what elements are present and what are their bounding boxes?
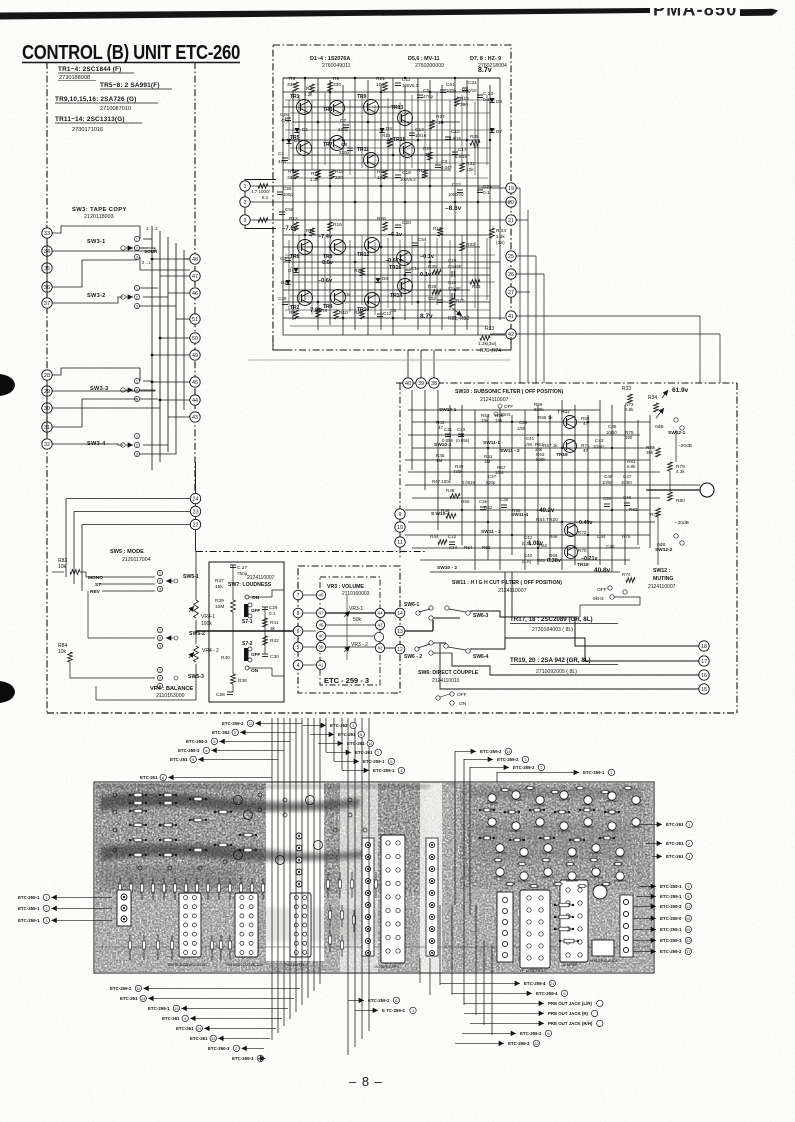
wire node25 bus [516,255,536,257]
svg-text:28: 28 [44,373,50,379]
svg-text:330: 330 [287,175,295,181]
svg-text:10/50: 10/50 [602,480,613,485]
svg-text:100V6.3: 100V6.3 [402,83,419,88]
capacitor C29 0.1 [262,606,268,608]
node r48 [190,254,200,264]
svg-text:6.8k: 6.8k [627,464,636,469]
svg-text:45: 45 [319,593,324,598]
loudness block frame [209,562,284,702]
svg-text:ETC-259-2: ETC-259-2 [368,998,390,1003]
svg-text:1M: 1M [484,459,491,464]
svg-text:220p: 220p [338,127,349,132]
svg-text:C47: C47 [623,474,632,479]
callout bottom r1 [348,999,364,1001]
svg-text:11: 11 [397,540,403,546]
svg-text:10: 10 [425,152,431,157]
node 38 [429,378,439,388]
resistor R27 10 [430,120,435,129]
wire node42 right [516,333,720,335]
svg-text:95: 95 [686,928,690,932]
svg-text:1.3k: 1.3k [310,177,319,182]
svg-text:SW SUBSONIC FILTER: SW SUBSONIC FILTER [168,963,207,967]
resistor R25 100 [383,170,388,179]
wire right vertical x700 [699,316,701,383]
svg-text:2120117004: 2120117004 [122,557,151,563]
svg-text:R42: R42 [270,638,279,644]
svg-text:ETC-259-1: ETC-259-1 [18,918,40,923]
wire vr3 column [346,595,348,660]
callout ETC-259-3 r9 [633,939,656,941]
svg-text:SW7: LOUDNESS: SW7: LOUDNESS [228,582,272,588]
resistor R5 330 [294,82,299,91]
svg-text:10 TAPE COPY: 10 TAPE COPY [374,965,400,969]
svg-text:2710087010: 2710087010 [100,106,131,112]
svg-text:18: 18 [701,644,707,650]
svg-text:TR5~8: 2 SA991(F): TR5~8: 2 SA991(F) [100,82,160,89]
wire SW3 bus verticals [151,226,153,470]
svg-text:ON: ON [252,595,260,601]
resistor R23 12 [388,138,393,147]
svg-text:SW6-1: SW6-1 [404,602,420,608]
svg-text:R33: R33 [622,386,631,392]
resistor R8 [316,308,321,317]
arrow 61.9v [662,390,668,398]
svg-text:R76: R76 [622,534,631,539]
node w45 [316,590,325,599]
node 26 [506,269,516,279]
node 40 [403,378,413,388]
node x43 [375,620,384,629]
scan thumb mark lower [0,681,15,703]
node v7 [293,590,303,600]
svg-text:2710092005 ( 8L): 2710092005 ( 8L) [536,669,577,675]
switch S7-1 ON contact [245,595,249,599]
svg-text:–20dB: –20dB [678,443,692,449]
svg-text:2760200009: 2760200009 [415,63,444,69]
svg-text:C44: C44 [597,534,606,539]
node w39 [316,642,325,651]
capacitor C54 [412,242,418,244]
svg-text:32: 32 [44,442,50,448]
svg-text:5: 5 [234,731,236,735]
svg-text:ETC-259-2: ETC-259-2 [513,765,535,770]
svg-text:R16: R16 [333,222,342,228]
svg-text:R14: R14 [306,228,315,233]
svg-text:ETC-259-1: ETC-259-1 [660,927,682,932]
resistor R16 [328,222,333,231]
callout ETC-259-3 r6 [633,905,656,907]
svg-text:220p: 220p [339,150,350,155]
wire SW3 right links lower [143,380,152,382]
wire sw6-1 out [433,617,460,619]
svg-text:0.1v: 0.1v [420,272,432,278]
svg-text:47p: 47p [281,118,289,124]
svg-text:C38: C38 [500,497,509,502]
wire terminal column 28-32 [46,380,48,439]
svg-text:ETC-261: ETC-261 [666,841,684,846]
node r43 [190,412,200,422]
svg-text:2: 2 [540,766,542,770]
callout ETC-259-0 r7 [633,917,656,919]
pcb right lower connectors [497,892,513,962]
capacitor C3 0.047 [435,164,441,166]
svg-text:820k: 820k [536,457,546,462]
svg-text:MUTING: MUTING [653,576,673,582]
svg-text:R24: R24 [354,268,363,273]
svg-text:ETC-261: ETC-261 [140,775,158,780]
svg-text:0.1: 0.1 [483,190,490,196]
svg-text:12: 12 [397,647,403,653]
node 28 [42,370,52,380]
svg-text:C17: C17 [458,147,467,152]
callout ETC-259-1 r5 [636,895,656,897]
transistor TR9 [364,100,379,115]
svg-text:PRE OUT JACK (R): PRE OUT JACK (R) [548,1011,589,1016]
svg-text:10: 10 [473,144,479,149]
callout bottom r9 [455,1042,504,1044]
amp block extra segments [288,100,290,160]
pcb vr4 block [593,885,607,899]
svg-text:ETC-261: ETC-261 [176,1026,194,1031]
svg-text:100k: 100k [201,621,212,627]
pcb pin strip right-center [426,838,438,956]
wire s7-1 on loop [249,590,284,597]
diode D6 [375,278,380,283]
svg-text:ETC-259-0: ETC-259-0 [660,916,682,921]
svg-text:39: 39 [418,381,424,387]
svg-text:R47 100k: R47 100k [432,479,452,484]
svg-text:44: 44 [192,398,198,404]
svg-text:47: 47 [438,425,444,430]
svg-text:22: 22 [193,522,199,528]
wire SW3 extra links [183,250,185,410]
wire filter drop 2 [511,572,513,617]
wire bundle right lower2 [483,940,485,1025]
node 27 [506,287,516,297]
svg-text:1: 1 [45,896,47,900]
svg-text:1.2k: 1.2k [496,234,505,239]
svg-text:SW6-4: SW6-4 [473,654,489,660]
node 24 [190,493,200,503]
svg-text:430k: 430k [453,469,463,474]
svg-text:ETC-259-2: ETC-259-2 [110,986,132,991]
svg-text:TR1: TR1 [290,94,300,100]
svg-text:1000/10: 1000/10 [461,88,477,93]
transistor TR18 [565,546,578,559]
volume block dash-dot frame [298,566,400,693]
border inner-left dash-dot [194,62,196,497]
svg-text:43: 43 [378,623,383,628]
svg-text:VR4 : BALANCE: VR4 : BALANCE [150,686,193,692]
wire node 1-3 chain [245,180,276,229]
resistor R7 1.3k [310,84,315,93]
svg-text:ETC-259-3: ETC-259-3 [660,904,682,909]
wire bus amp right vertical 2 [527,210,529,383]
svg-text:4.7 1000/: 4.7 1000/ [251,189,271,194]
svg-text:SW5 : MODE: SW5 : MODE [110,549,144,555]
svg-text:2: 2 [235,1047,237,1051]
pcb white wire channel center [340,783,378,972]
svg-text:2124110007: 2124110007 [247,575,275,581]
svg-text:D6: D6 [382,276,388,281]
wire node19 to bus [516,187,520,189]
svg-text:47: 47 [583,448,589,453]
pcb left small parts [113,793,117,797]
node 18 [699,641,709,651]
svg-text:D3: D3 [294,138,300,144]
node y12 [395,644,405,654]
svg-text:21: 21 [550,982,554,986]
svg-text:OFF: OFF [597,587,607,593]
amp block dash-dot frame [273,45,511,350]
svg-text:1: 1 [688,823,690,827]
svg-text:10: 10 [397,525,403,531]
svg-text:R52: R52 [484,505,493,510]
svg-text:2730188908: 2730188908 [59,75,90,81]
svg-text:42: 42 [378,646,383,651]
svg-text:61.9v: 61.9v [672,387,689,394]
svg-text:49: 49 [192,353,198,359]
svg-text:3: 3 [688,855,690,859]
scan thumb mark upper [0,374,15,396]
svg-text:ON: ON [459,701,467,707]
svg-text:SW5-1: SW5-1 [183,574,199,580]
svg-text:(L,R): (L,R) [522,559,532,564]
svg-text:C2: C2 [280,256,286,262]
node 31 [42,422,52,432]
transistor TR20 [565,524,578,537]
capacitor C27 750p [230,564,236,566]
capacitor C1 47p [282,157,288,159]
svg-text:D8: D8 [496,99,502,105]
svg-text:R46: R46 [441,508,450,513]
node 11 [395,537,405,547]
svg-text:ETC-259-3: ETC-259-3 [660,938,682,943]
volume inner dash-dot frame [320,577,380,685]
pcb left transistors [234,796,243,805]
wire sw12 column [675,430,677,462]
svg-text:2→1: 2→1 [142,260,152,265]
wire bus amp right vertical 3 [535,256,537,383]
transistor TR14 [398,279,413,294]
svg-text:(3w): (3w) [496,240,505,245]
node r45 [190,377,200,387]
wire SW5 drop 3 [81,525,83,592]
resistor R24 [360,268,365,276]
border filter-left dash-dot [399,383,401,558]
svg-text:–0.67v: –0.67v [385,258,403,264]
transistor TR16 [397,251,412,266]
svg-text:D2: D2 [281,280,287,285]
svg-text:–20dB: –20dB [675,520,689,526]
border filter-top dash-dot [396,382,737,384]
svg-text:390: 390 [460,102,468,108]
border left dash-dot [46,62,48,713]
masthead right bar [740,9,778,16]
svg-text:2124110007: 2124110007 [648,584,676,590]
svg-text:VR4-2 BALANCE: VR4-2 BALANCE [590,959,619,963]
svg-text:8: 8 [687,895,689,899]
svg-text:D7: D7 [496,129,502,135]
resistor R36 [470,280,480,285]
svg-text:2: 2 [244,200,247,206]
svg-text:50k: 50k [353,617,362,623]
svg-text:C26: C26 [278,296,287,301]
amp block bottom bracket right [495,337,511,350]
transistor TR5 [297,141,312,156]
pcb footprint SW tape copy [381,835,405,963]
node 1 [240,181,250,191]
svg-text:ETC-259-2: ETC-259-2 [480,749,502,754]
callout ETC-259-2 topB1 [455,750,476,752]
svg-text:40: 40 [686,939,690,943]
wire terminal column 22-24 stem [195,462,197,552]
svg-text:2110163000: 2110163000 [156,693,185,699]
callout bottom r6 [464,1012,544,1014]
svg-text:TR15: TR15 [393,137,405,143]
svg-text:R39: R39 [215,598,224,604]
svg-text:ETC-261: ETC-261 [170,757,188,762]
svg-text:10/50: 10/50 [621,480,632,485]
svg-text:6: 6 [297,629,300,635]
svg-text:1M: 1M [436,458,443,463]
svg-text:ETC-262: ETC-262 [212,730,230,735]
svg-text:14: 14 [397,611,403,617]
svg-text:VR4-1: VR4-1 [201,614,215,620]
svg-text:CS45E: CS45E [448,264,462,269]
transistor TR8 [331,240,346,255]
transistor TR17 [564,416,577,429]
capacitor C21 1000/10 [462,87,468,89]
wire node41 right [516,315,700,317]
svg-text:R33: R33 [485,326,494,332]
svg-text:R6: R6 [289,310,295,316]
svg-text:VR4 - 2: VR4 - 2 [202,648,219,654]
svg-text:R56: R56 [482,545,491,550]
callout ETC-261 r2 [646,842,662,844]
junction dots SW3 [151,258,154,261]
svg-text:24: 24 [141,997,145,1001]
svg-text:–7.6v: –7.6v [282,226,298,232]
wire heavy y631 [196,630,296,632]
svg-text:37: 37 [44,301,50,307]
svg-text:ON: ON [251,668,259,674]
svg-text:R21: R21 [376,76,385,82]
svg-text:4: 4 [184,1017,186,1021]
svg-text:2760049011: 2760049011 [322,63,351,69]
svg-text:13: 13 [397,629,403,635]
svg-text:R17: R17 [417,168,426,173]
svg-text:17: 17 [701,659,707,665]
svg-text:41: 41 [319,663,324,668]
callout ETC-259-1 r8 [633,928,656,930]
svg-text:4: 4 [400,769,402,773]
capacitor C55 100p [277,191,283,193]
svg-text:9kHz: 9kHz [593,596,605,602]
svg-text:0.6v: 0.6v [322,260,334,266]
wire SW5 drop 2 [73,511,75,584]
svg-text:R38: R38 [238,678,247,684]
svg-text:R37: R37 [215,578,224,584]
svg-text:–0.6v: –0.6v [318,278,333,284]
resistor R9 330 [328,82,333,91]
svg-text:SW11 - 2: SW11 - 2 [500,448,520,454]
wire VR4 top [195,552,197,601]
wire 13 heavy [405,630,433,632]
svg-text:TR13: TR13 [391,105,403,111]
svg-text:ETC-259-3: ETC-259-3 [222,721,244,726]
diode D1 [294,128,299,133]
node 9 [395,509,405,519]
capacitor C9 220p [347,147,353,149]
svg-text:10/50: 10/50 [593,444,604,449]
pcb right transistor clusters [488,794,496,802]
svg-text:1/50: 1/50 [524,442,533,447]
callout ETC-259-1 long [496,772,498,782]
svg-text:SW3: TAPE COPY: SW3: TAPE COPY [72,207,127,213]
svg-text:ETC-261: ETC-261 [190,1036,208,1041]
svg-text:PRE OUT JACK (R/H): PRE OUT JACK (R/H) [548,1021,593,1026]
pcb grain fill coarse left [96,784,426,894]
wire volume links [303,594,316,596]
svg-text:330: 330 [335,175,343,181]
node w46 [316,620,325,629]
svg-text:R9: R9 [333,76,339,82]
svg-text:E TC-259-4: E TC-259-4 [382,1008,405,1013]
svg-text:–40.2v: –40.2v [536,508,555,514]
resistor R32 [460,242,465,251]
svg-text:SW12 :: SW12 : [653,568,671,574]
node 42 [506,329,516,339]
potentiometer VR4-2 [194,646,199,662]
svg-text:TR19: TR19 [556,452,568,458]
node r51 [190,314,200,324]
svg-text:D4: D4 [288,268,294,273]
svg-text:ETC-259-3: ETC-259-3 [508,1041,530,1046]
svg-text:820p: 820p [486,480,496,485]
svg-text:C40: C40 [524,553,533,558]
node 35 [42,263,52,273]
svg-text:R48: R48 [446,488,455,493]
capacitor C24 0.1 [477,189,483,191]
callout ETC-261 topr3 [326,751,351,753]
svg-text:C9: C9 [341,142,347,148]
svg-text:3: 3 [244,218,247,224]
svg-text:SW6 - 2: SW6 - 2 [404,654,422,660]
capacitor C2 [285,257,291,259]
svg-text:C36: C36 [479,499,488,504]
wire 24 feed [66,498,190,500]
svg-text:43: 43 [192,415,198,421]
node 3 [240,215,250,225]
svg-text:2730171016: 2730171016 [72,127,103,133]
svg-text:R80: R80 [676,498,685,504]
wire amp input 3 [250,219,273,221]
svg-text:R29: R29 [423,146,432,151]
svg-text:R72: R72 [578,530,587,535]
svg-text:0dB: 0dB [655,424,664,430]
wire node6 heavy [296,630,303,632]
svg-text:8: 8 [360,733,362,737]
svg-text:33: 33 [44,231,50,237]
svg-text:S7-1: S7-1 [242,619,253,625]
svg-text:C56: C56 [285,207,294,212]
transistor TR1 [297,100,312,115]
svg-text:12: 12 [686,905,690,909]
svg-text:ETC-259-2: ETC-259-2 [497,757,519,762]
svg-text:SW11 - 3: SW11 - 3 [481,529,501,535]
node 23 [190,506,200,516]
